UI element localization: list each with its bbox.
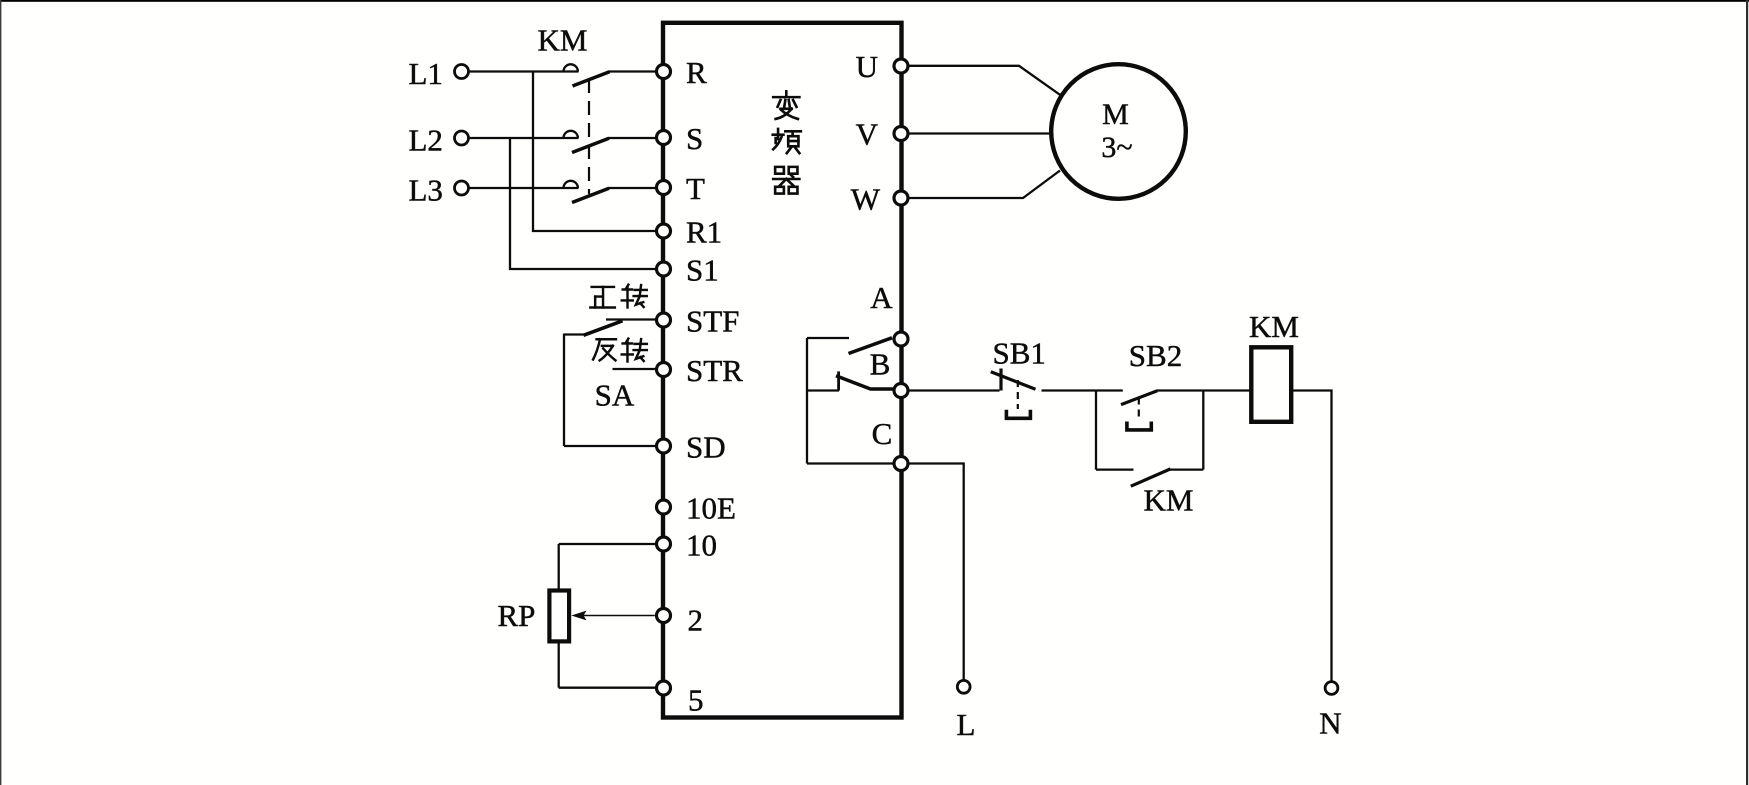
terminal W <box>894 191 908 205</box>
terminal L2 <box>455 131 469 145</box>
terminal S1 <box>657 262 671 276</box>
terminal STR <box>657 363 671 377</box>
fault relay wire at C level <box>807 462 895 464</box>
label 反 <box>593 339 616 360</box>
svg-text:L1: L1 <box>409 56 443 91</box>
wire SB2 to KM coil <box>1157 389 1252 391</box>
page right border line <box>1746 0 1748 785</box>
fault relay wire at B level <box>807 389 839 391</box>
svg-text:2: 2 <box>688 603 704 638</box>
terminal 10E <box>657 500 671 514</box>
wire KM contact to R <box>609 70 657 72</box>
svg-text:L: L <box>957 707 976 742</box>
wire L2 to KM contact <box>469 137 579 139</box>
SB1 fixed tick <box>999 369 1002 391</box>
terminal L <box>957 680 970 693</box>
wire RP bottom to terminal 5 <box>559 687 657 689</box>
svg-text:KM: KM <box>538 23 588 58</box>
label 转 (forward) <box>622 285 647 308</box>
label 正 <box>590 287 615 308</box>
wire L3 to KM contact <box>469 187 579 189</box>
terminal 2 <box>657 609 671 623</box>
svg-text:N: N <box>1319 706 1341 741</box>
KM aux contact blade (NO) <box>1131 469 1171 486</box>
wire KM contact to T <box>609 187 658 189</box>
terminal R1 <box>657 224 671 238</box>
svg-text:SB2: SB2 <box>1129 338 1182 373</box>
terminal T <box>657 181 671 195</box>
terminal R <box>657 65 671 79</box>
label 频 <box>773 129 801 153</box>
SB2 dashed actuator link <box>1138 398 1140 422</box>
page top border bar <box>0 0 1749 2</box>
svg-text:R1: R1 <box>686 215 722 250</box>
svg-text:SD: SD <box>686 430 726 465</box>
potentiometer RP body <box>549 591 569 642</box>
svg-text:R: R <box>686 55 707 90</box>
wire C to L drop <box>909 464 964 681</box>
SB2 blade (NO) <box>1121 391 1157 405</box>
wire W to motor <box>909 171 1060 199</box>
svg-text:10: 10 <box>686 528 717 563</box>
wire down to RP <box>558 544 560 592</box>
wire L2 tap down to S1 <box>510 138 657 269</box>
svg-text:S1: S1 <box>686 253 719 288</box>
label 转 (reverse) <box>622 339 647 362</box>
svg-text:T: T <box>686 171 705 206</box>
SB1 button cap <box>1005 410 1033 419</box>
KM contact blade L2 <box>572 138 609 152</box>
wire U to motor <box>909 66 1061 95</box>
KM aux branch left drop <box>1095 391 1097 470</box>
SB1 dashed actuator link <box>1017 380 1019 409</box>
KM contact arc L1 <box>564 64 578 71</box>
svg-text:V: V <box>856 117 879 152</box>
SB2 button cap <box>1125 422 1153 430</box>
terminal 10 <box>657 537 671 551</box>
wire V to motor <box>909 132 1051 134</box>
svg-text:M: M <box>1102 98 1129 131</box>
KM linkage dashed line <box>588 79 590 194</box>
KM aux branch right drop <box>1202 391 1204 470</box>
motor M 3~ <box>1051 64 1186 199</box>
SB1 blade (NC) <box>991 372 1036 389</box>
svg-text:STF: STF <box>686 304 739 339</box>
svg-text:B: B <box>870 347 891 382</box>
KM contact arc L3 <box>564 181 578 188</box>
wire L1 to KM contact <box>469 70 579 72</box>
wire KM contact to S <box>609 137 658 139</box>
svg-text:A: A <box>870 280 893 315</box>
KM aux wire right <box>1168 468 1203 470</box>
wire RP bottom down <box>558 641 560 687</box>
svg-text:3~: 3~ <box>1101 131 1132 164</box>
RP wiper arrowhead <box>571 611 586 621</box>
terminal B <box>894 384 908 398</box>
svg-text:L2: L2 <box>409 123 443 158</box>
switch SA pole stub <box>564 333 584 335</box>
wire KM coil to N drop <box>1291 391 1331 682</box>
svg-text:5: 5 <box>688 683 704 718</box>
svg-text:U: U <box>856 49 878 84</box>
svg-text:10E: 10E <box>686 491 736 526</box>
fault relay fixed tick B <box>837 371 840 390</box>
page left border line <box>0 0 1 785</box>
svg-text:KM: KM <box>1144 483 1194 518</box>
svg-text:SA: SA <box>595 378 635 413</box>
svg-text:RP: RP <box>498 598 536 633</box>
label 器 <box>773 167 799 194</box>
svg-text:S: S <box>686 121 703 156</box>
wire B to SB1 <box>909 389 1000 391</box>
fault relay blade A (NO) <box>849 338 893 354</box>
wire SA pole down <box>563 334 565 447</box>
terminal L3 <box>455 181 469 195</box>
terminal L1 <box>455 65 469 79</box>
terminal N <box>1325 682 1338 695</box>
inverter box U1 变频器 <box>663 23 902 718</box>
contactor coil KM <box>1251 347 1291 422</box>
svg-text:STR: STR <box>686 353 743 388</box>
terminal S <box>657 131 671 145</box>
terminal V <box>894 127 908 141</box>
fault relay blade B (NC closed) <box>836 376 894 389</box>
wire SB1 to SB2 <box>1042 389 1123 391</box>
KM contact arc L2 <box>564 131 578 138</box>
wire SA pole to SD <box>564 445 657 447</box>
terminal 5 <box>657 681 671 695</box>
fault relay wire to A contact <box>807 337 849 339</box>
svg-text:C: C <box>872 416 893 451</box>
terminal C <box>894 457 908 471</box>
terminal STF <box>657 313 671 327</box>
wire L1 tap down to R1 <box>533 72 657 232</box>
wire SA throw to STR <box>613 368 658 370</box>
wire 10 terminal to RP top <box>559 543 657 545</box>
svg-text:KM: KM <box>1249 309 1299 344</box>
KM contact blade L3 <box>572 188 609 202</box>
terminal U <box>894 59 908 73</box>
fault relay rail (common) <box>806 338 808 464</box>
KM contact blade L1 <box>573 72 610 86</box>
KM aux wire left <box>1096 468 1134 470</box>
switch SA blade <box>584 321 623 336</box>
label 变 <box>773 91 799 119</box>
terminal SD <box>657 439 671 453</box>
wire SA to STF <box>606 318 657 320</box>
svg-text:SB1: SB1 <box>993 336 1046 371</box>
terminal A <box>894 332 908 346</box>
svg-text:W: W <box>851 182 881 217</box>
svg-text:L3: L3 <box>409 173 443 208</box>
RP wiper wire from terminal 2 <box>578 615 655 617</box>
